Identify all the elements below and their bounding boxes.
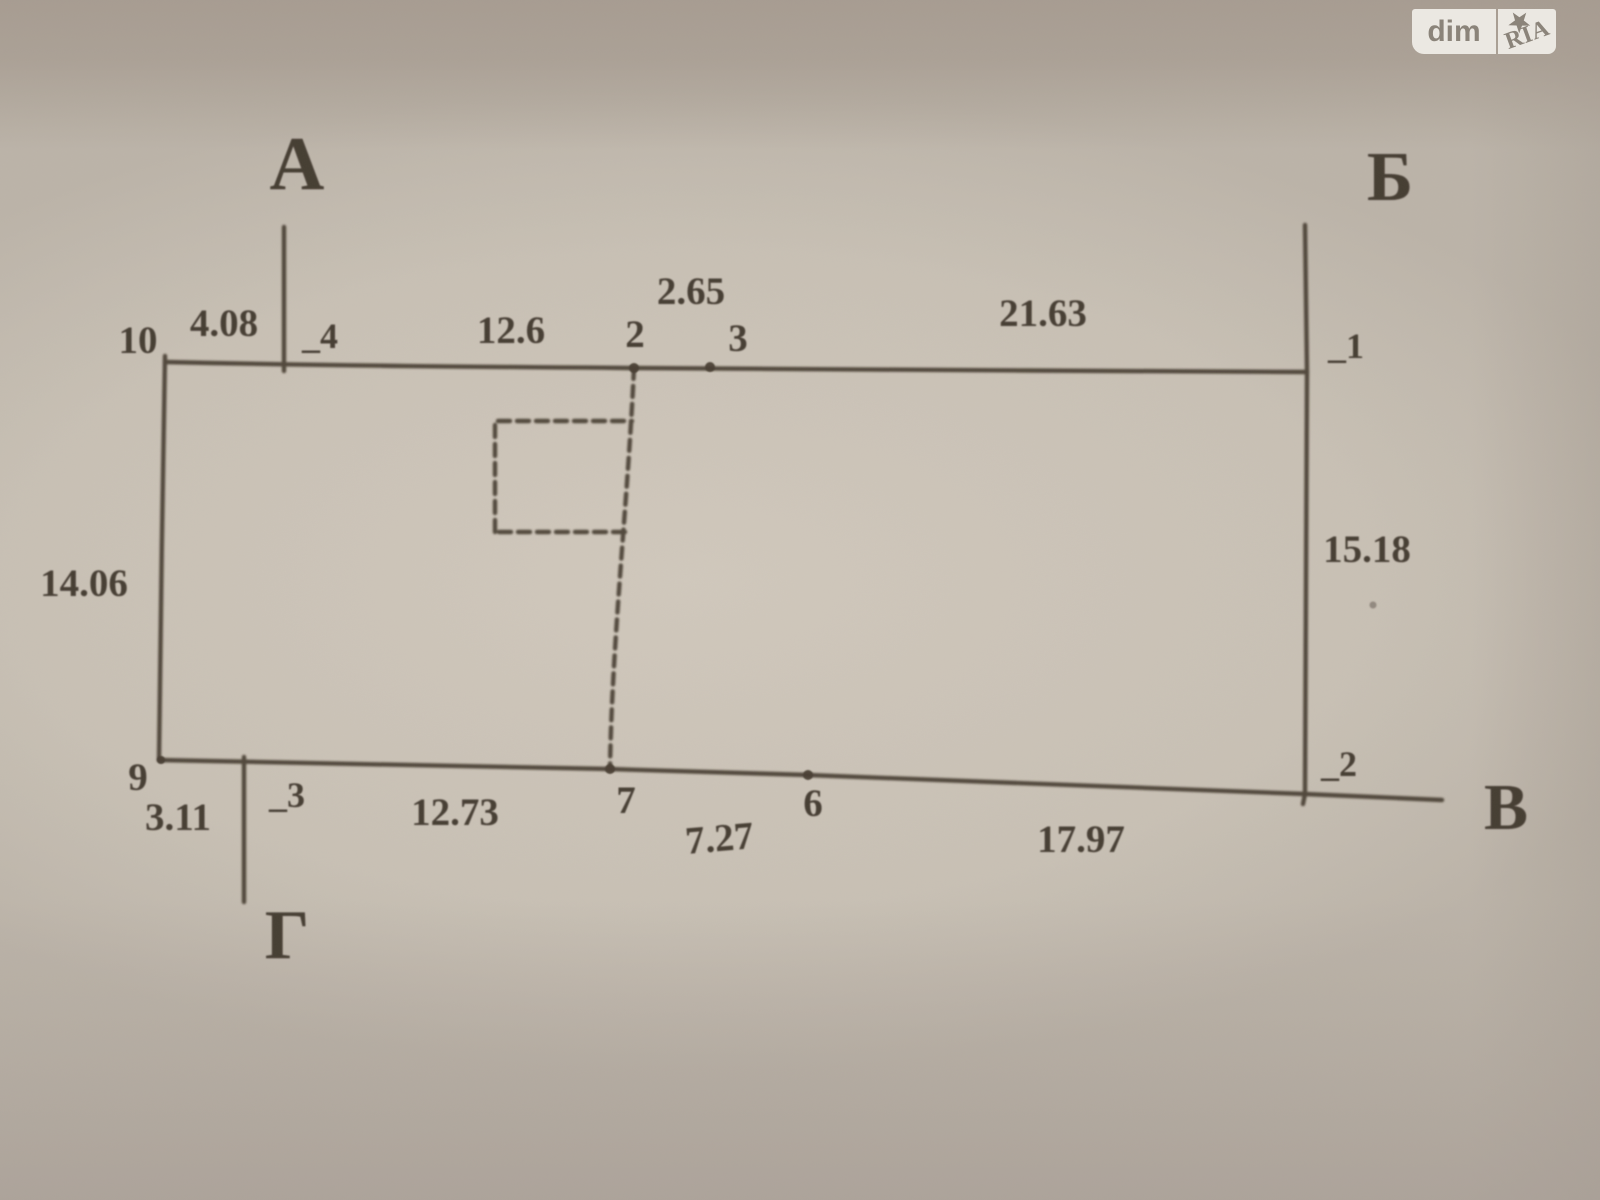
node point 7: [605, 764, 615, 774]
wire: direction tick line G: [242, 757, 246, 902]
svg-text:RIA: RIA: [1502, 15, 1554, 54]
wire: bottom boundary line 9-3-7-6-2 with extension toward B: [159, 760, 1442, 800]
wire: left boundary line 10-9: [159, 356, 165, 760]
node point 3: [705, 362, 715, 372]
node point 9: [157, 756, 165, 764]
dashed building outline square: [495, 421, 632, 532]
node point 2: [629, 363, 639, 373]
watermark dim box: [1412, 9, 1496, 54]
watermark RIA box: [1498, 9, 1556, 54]
stray ink speck: [1370, 602, 1377, 609]
wire: direction tick line A: [282, 227, 286, 371]
wire: dashed interior line from point 2 to point 7: [610, 368, 634, 769]
node point 6: [803, 770, 813, 780]
RIA star: [1497, 3, 1553, 55]
wire: top boundary line 10-4-2-3-1: [165, 362, 1307, 372]
wire: right boundary line from above point 1 down to point 2: [1303, 225, 1307, 804]
